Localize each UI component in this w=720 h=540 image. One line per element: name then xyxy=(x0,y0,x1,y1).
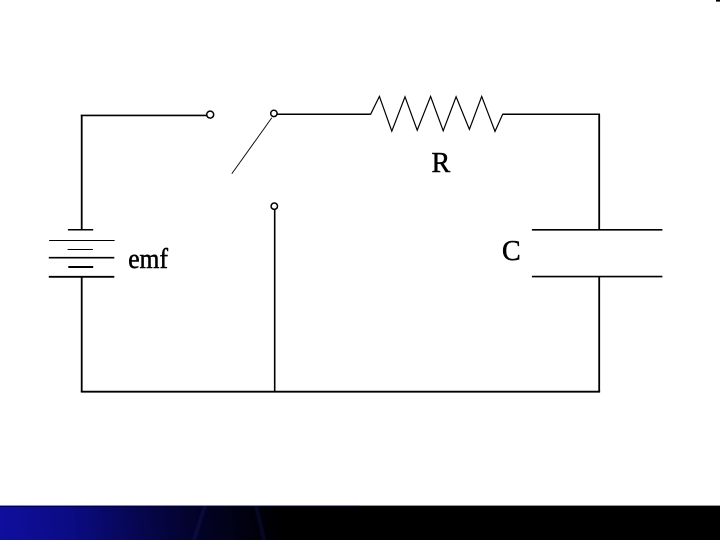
capacitor C bottom plate xyxy=(532,276,663,278)
battery plate: short thin xyxy=(68,249,93,251)
switch terminal node 2 xyxy=(271,110,277,116)
wire: resistor to top-right corner xyxy=(503,113,601,115)
wire: top rail from left corner to switch terminal xyxy=(81,114,207,116)
bottom bar diagonal streak 2 xyxy=(254,506,266,540)
wire: from lower switch terminal down to bottom rail xyxy=(274,210,276,392)
battery plate: short thick xyxy=(68,266,93,268)
bottom rail wire xyxy=(81,391,600,393)
bottom bar top dark edge xyxy=(0,506,360,507)
resistor R (zigzag) xyxy=(371,96,503,131)
bottom gradient bar xyxy=(0,506,720,540)
svg-text:C: C xyxy=(502,236,521,267)
wire: left vertical upper segment (battery top lead) xyxy=(81,115,83,230)
capacitor C top plate xyxy=(532,229,663,231)
battery plate: long thick xyxy=(49,257,115,259)
switch terminal node 3 (lower) xyxy=(271,203,277,209)
switch terminal node 1 xyxy=(207,111,214,118)
svg-text:emf: emf xyxy=(128,244,168,275)
wire: switch terminal 2 to resistor xyxy=(277,113,370,115)
battery emf: top terminal T-bar xyxy=(68,229,93,231)
svg-text:R: R xyxy=(432,148,451,179)
battery plate: bottom long thick xyxy=(49,276,115,278)
bottom bar diagonal streak 1 xyxy=(192,506,207,540)
wire: left vertical lower segment (battery bottom lead) xyxy=(81,277,83,392)
switch blade (open) xyxy=(232,118,272,174)
wire: right vertical lower segment (capacitor to bottom rail) xyxy=(598,277,600,392)
battery plate: long thin xyxy=(49,240,115,242)
wire: right vertical upper segment (to capacitor top plate) xyxy=(598,114,600,230)
top-right corner mark xyxy=(716,0,720,2)
